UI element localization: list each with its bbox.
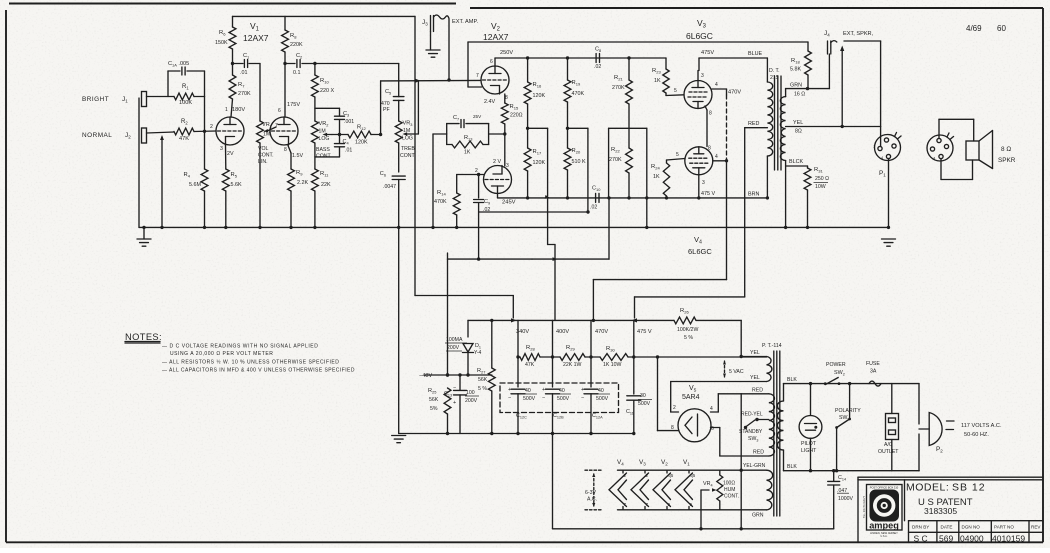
B+ feed wire from rail to 340V node — [414, 16, 416, 295]
svg-text:0.1: 0.1 — [293, 70, 301, 76]
BLK bottom line — [784, 470, 920, 472]
svg-text:ampeg: ampeg — [869, 521, 899, 531]
heater V3 — [644, 470, 646, 473]
RED tap wire to power supply — [744, 128, 746, 297]
svg-text:5 VAC: 5 VAC — [729, 369, 744, 375]
secondary BLCK tap to ground — [785, 161, 787, 228]
capacitor C9 .02 — [477, 173, 480, 176]
svg-text:.0047: .0047 — [383, 184, 396, 190]
svg-text:.01: .01 — [345, 148, 352, 154]
svg-text:R17: R17 — [533, 149, 542, 156]
svg-text:4: 4 — [715, 154, 718, 160]
svg-text:500V: 500V — [638, 401, 651, 407]
svg-text:3: 3 — [220, 146, 223, 152]
tube V1 12AX7 triode a — [216, 117, 244, 145]
svg-text:RED-YEL: RED-YEL — [741, 412, 763, 418]
svg-text:R1: R1 — [182, 84, 189, 91]
bass pot VR2 1M LOG — [312, 121, 319, 143]
svg-text:+: + — [453, 400, 456, 406]
resistor R27 56K 5% — [491, 320, 493, 368]
svg-text:9: 9 — [690, 502, 693, 507]
resistor R31 250 ohm 10W — [807, 166, 809, 168]
svg-text:−: − — [581, 395, 584, 401]
B+ rail top — [233, 15, 416, 17]
svg-text:R10: R10 — [320, 78, 329, 85]
svg-text:U.S.A.: U.S.A. — [881, 535, 888, 538]
svg-text:56K: 56K — [429, 397, 439, 403]
svg-text:3183305: 3183305 — [924, 506, 957, 516]
wire 475V to V5 pin8 — [657, 357, 659, 431]
heater V2 — [666, 470, 668, 473]
svg-text:8 Ω: 8 Ω — [1001, 146, 1011, 153]
svg-text:C10: C10 — [592, 186, 601, 193]
node vertical R1/R2/R4 junction — [204, 97, 206, 170]
resistor R16 120K — [527, 58, 529, 82]
svg-text:GRN: GRN — [790, 83, 802, 89]
resistor R15 220 ohm — [501, 103, 508, 124]
svg-text:2: 2 — [210, 124, 213, 130]
wire R2 to V1 grid pin 2 — [194, 130, 216, 133]
svg-text:569: 569 — [939, 533, 953, 543]
svg-text:R29: R29 — [566, 345, 575, 352]
resistor R12 120K — [332, 134, 348, 136]
svg-text:10W: 10W — [815, 184, 826, 190]
wire R7 to V1 plate pin1 180V — [231, 99, 233, 117]
svg-text:R9: R9 — [296, 170, 303, 177]
filter cap C12A 40/500V — [584, 388, 598, 390]
svg-text:510 K: 510 K — [572, 159, 586, 165]
5V winding — [767, 357, 772, 382]
svg-text:100: 100 — [466, 390, 475, 396]
svg-text:7: 7 — [624, 502, 627, 507]
output transformer secondary — [780, 97, 785, 161]
5V winding YEL bottom — [671, 381, 767, 383]
svg-text:2 V: 2 V — [493, 159, 501, 165]
secondary YEL 8 ohm tap — [786, 126, 881, 128]
svg-text:9: 9 — [668, 502, 671, 507]
tube V2 triode a — [481, 66, 509, 94]
P1 pin1 wire from amp — [880, 127, 882, 147]
svg-text:C8: C8 — [595, 47, 601, 54]
svg-text:1K: 1K — [654, 78, 661, 84]
svg-text:R16: R16 — [533, 82, 542, 89]
resistor R6 150K — [232, 16, 234, 27]
svg-text:RED: RED — [748, 121, 759, 127]
tube V1 triode b — [270, 117, 298, 145]
svg-text:TEL. 201 HU 6-8177: TEL. 201 HU 6-8177 — [863, 495, 866, 518]
svg-text:P. T.-114: P. T.-114 — [762, 343, 782, 349]
svg-text:5: 5 — [674, 88, 677, 94]
svg-text:100K/2W: 100K/2W — [677, 327, 698, 333]
svg-text:STANDBY: STANDBY — [739, 429, 763, 435]
svg-text:.02: .02 — [590, 205, 597, 211]
svg-text:POST OFFICE BOX 310: POST OFFICE BOX 310 — [870, 485, 899, 489]
output transformer RED center tap — [745, 127, 768, 129]
V5 plate pin4 to RED top — [711, 411, 719, 413]
svg-text:LIN.: LIN. — [258, 159, 268, 165]
svg-text:C6: C6 — [380, 171, 386, 178]
pilot light — [810, 384, 812, 416]
svg-text:R26: R26 — [680, 308, 689, 315]
wire R19/R20 junction riser — [568, 127, 588, 129]
main ground bus — [139, 226, 889, 228]
svg-text:TREB: TREB — [401, 146, 415, 152]
svg-text:Y-4: Y-4 — [474, 350, 482, 356]
svg-text:CONT.: CONT. — [400, 153, 416, 159]
resistor R10 220K — [313, 62, 316, 65]
svg-text:180V: 180V — [232, 107, 245, 113]
svg-text:YEL: YEL — [750, 375, 760, 381]
resistor R5 5.6K — [222, 169, 229, 191]
svg-text:LOG: LOG — [402, 136, 413, 142]
svg-text:FUSE: FUSE — [866, 361, 880, 367]
resistor R28 47K — [520, 354, 540, 361]
svg-text:2: 2 — [475, 168, 478, 174]
wire R12 node to grid line — [380, 81, 382, 135]
svg-text:3A: 3A — [870, 369, 877, 375]
svg-text:8: 8 — [671, 425, 674, 431]
svg-text:RED: RED — [752, 388, 763, 394]
svg-text:4: 4 — [715, 82, 718, 88]
svg-text:220Ω: 220Ω — [510, 113, 523, 119]
svg-text:470K: 470K — [572, 91, 585, 97]
AC outlet — [886, 414, 899, 440]
svg-text:VR2: VR2 — [319, 121, 329, 128]
V5 plate pin6 to RED bottom — [711, 427, 720, 429]
speaker 8 ohm — [966, 141, 979, 160]
hum balance pot VR4 100 ohm — [719, 470, 721, 475]
svg-text:RED: RED — [753, 450, 764, 456]
svg-text:R4: R4 — [184, 172, 191, 179]
svg-text:270K: 270K — [609, 157, 622, 163]
svg-text:DRN BY: DRN BY — [912, 525, 929, 530]
svg-text:CONT.: CONT. — [724, 494, 739, 500]
svg-text:−: − — [508, 395, 511, 401]
P1 pin4 to ground — [888, 159, 890, 228]
svg-text:R28: R28 — [526, 345, 535, 352]
plate line 245V across to output stage — [498, 197, 768, 199]
svg-text:1.5V: 1.5V — [292, 153, 303, 159]
heater V1 — [688, 470, 690, 473]
svg-text:100K: 100K — [179, 100, 192, 106]
VR3 wiper to grid line — [403, 132, 408, 135]
resistor R9 2.2K — [288, 169, 295, 191]
svg-text:MODEL:: MODEL: — [906, 482, 949, 494]
capacitor C7 with R13 1K parallel box — [433, 133, 447, 135]
VR2 wiper arrow — [327, 134, 332, 136]
svg-text:GRN: GRN — [752, 513, 764, 519]
svg-text:8: 8 — [709, 111, 712, 117]
svg-text:VR1: VR1 — [262, 122, 272, 129]
svg-text:R19: R19 — [572, 80, 581, 87]
svg-text:−: − — [453, 385, 456, 391]
svg-text:40: 40 — [525, 388, 531, 394]
V3 plate to 475V BLUE line — [697, 71, 699, 81]
svg-text:250V: 250V — [500, 50, 513, 56]
svg-text:— ALL RESISTORS ½ W. 10 %: — ALL RESISTORS ½ W. 10 % UNLESS OTHERWI… — [162, 359, 339, 366]
svg-text:175V: 175V — [287, 102, 300, 108]
tube V4 6L6GC — [685, 147, 713, 175]
5VAC indicator — [724, 361, 726, 377]
svg-text:BLUE: BLUE — [748, 51, 762, 57]
svg-text:R20: R20 — [572, 148, 581, 155]
capacitor C4 .01 — [339, 120, 341, 144]
svg-text:220 X: 220 X — [320, 88, 334, 94]
V2b plate to 245V line — [497, 194, 499, 198]
svg-text:HUM: HUM — [724, 487, 735, 493]
svg-text:220K: 220K — [290, 42, 303, 48]
svg-text:475V: 475V — [701, 50, 714, 56]
svg-text:470V: 470V — [728, 90, 741, 96]
title block frame — [858, 476, 1043, 478]
plug P2 — [918, 384, 920, 424]
svg-text:2: 2 — [646, 473, 649, 478]
svg-text:.02: .02 — [594, 64, 601, 70]
svg-text:6L6GC: 6L6GC — [688, 247, 712, 256]
svg-text:1000V: 1000V — [838, 496, 854, 502]
svg-text:C2: C2 — [296, 53, 302, 60]
resistor R8 220K — [284, 16, 286, 30]
svg-text:LIGHT: LIGHT — [801, 448, 817, 454]
secondary GRN 16 ohm tap — [785, 89, 787, 97]
svg-text:POWER: POWER — [826, 362, 846, 368]
title table — [936, 521, 938, 543]
svg-text:6: 6 — [490, 59, 493, 65]
svg-text:100Ω: 100Ω — [723, 481, 735, 487]
svg-text:2.4V: 2.4V — [484, 99, 495, 105]
svg-text:USING A 20,000 Ω PER VOL: USING A 20,000 Ω PER VOLT METER — [170, 351, 273, 357]
capacitor C1 .01 — [233, 63, 244, 65]
V3 cathode to V4 cathode wire — [705, 106, 707, 110]
svg-text:470K: 470K — [434, 199, 447, 205]
svg-text:R30: R30 — [606, 346, 615, 353]
resistor R19 470K — [567, 58, 569, 80]
svg-text:100MA: 100MA — [446, 337, 463, 343]
grid return arrow at J2 line — [161, 137, 163, 227]
capacitor C14 .047 1000V — [833, 471, 835, 481]
capacitor C2 0.1 — [285, 63, 295, 65]
wire R6 to C1 node to R7 — [232, 49, 234, 75]
svg-text:R12: R12 — [357, 125, 366, 132]
VR4 wiper ground wire — [700, 490, 702, 529]
svg-text:R5: R5 — [231, 172, 238, 179]
svg-text:BRIGHT: BRIGHT — [82, 96, 109, 103]
capacitor C10 .02 — [595, 193, 597, 202]
svg-text:BLK: BLK — [787, 464, 797, 470]
capacitor C13 100/200V — [459, 375, 461, 390]
primary winding — [777, 401, 783, 450]
svg-text:R21: R21 — [614, 75, 623, 82]
svg-text:4/69: 4/69 — [966, 24, 982, 33]
wire C9 junction to riser — [479, 211, 588, 213]
svg-text:7: 7 — [476, 73, 479, 79]
capacitor C8 .02 — [595, 54, 597, 63]
svg-text:3: 3 — [702, 180, 705, 186]
resistor R30 1K 10W — [600, 354, 628, 361]
svg-text:6: 6 — [278, 108, 281, 114]
resistor R20 510K — [567, 102, 569, 148]
B+ 340V line with R26 — [468, 319, 674, 321]
svg-text:BLCK: BLCK — [789, 159, 803, 165]
svg-text:OUTLET: OUTLET — [878, 449, 899, 455]
svg-text:4|5: 4|5 — [690, 473, 696, 478]
svg-text:5.8K: 5.8K — [790, 67, 801, 73]
svg-text:CONT.: CONT. — [258, 153, 274, 159]
PSU ground line — [399, 433, 634, 435]
svg-text:4|5: 4|5 — [668, 473, 674, 478]
PSU ground symbol — [392, 435, 406, 437]
svg-text:— D C VOLTAGE READINGS WIT: — D C VOLTAGE READINGS WITH NO SIGNAL AP… — [162, 344, 318, 350]
wire J1 J2 sleeve to ground bus — [138, 98, 140, 227]
svg-text:470V: 470V — [595, 329, 608, 335]
svg-text:R31: R31 — [814, 167, 823, 174]
svg-text:5 %: 5 % — [478, 386, 487, 392]
volume pot VR1 1M column — [259, 64, 261, 122]
svg-text:R23: R23 — [652, 68, 661, 75]
svg-text:.01: .01 — [240, 70, 248, 76]
svg-text:1: 1 — [225, 107, 228, 113]
svg-text:PF: PF — [383, 107, 390, 113]
svg-text:60: 60 — [997, 24, 1006, 33]
svg-text:5: 5 — [676, 152, 679, 158]
svg-text:R25: R25 — [428, 388, 437, 395]
svg-text:SB 12: SB 12 — [952, 482, 986, 494]
V2a plate pin6 to 250V line — [494, 58, 496, 66]
wire V1 cathode pin3 to R5 to ground — [225, 145, 227, 169]
svg-text:56K: 56K — [478, 377, 488, 383]
feed jog down to B+ line — [547, 198, 549, 245]
svg-text:YEL: YEL — [750, 350, 760, 356]
svg-text:2.2K: 2.2K — [297, 180, 308, 186]
wire R8 to C2 node to V1 plate pin6 175V — [284, 52, 286, 117]
svg-text:1K: 1K — [653, 174, 660, 180]
svg-text:40: 40 — [598, 388, 604, 394]
resistor R21 270K — [628, 58, 630, 80]
ampeg logo — [867, 485, 903, 531]
jog segment on feed line — [479, 258, 532, 260]
resistor R14 470K — [456, 175, 458, 194]
svg-text:30: 30 — [640, 393, 646, 399]
svg-text:1K 10W: 1K 10W — [603, 362, 622, 368]
NFB rail from V2 cathode to R18 — [468, 41, 808, 43]
svg-text:R15: R15 — [510, 104, 519, 111]
heater/PSU ground return line — [552, 434, 554, 529]
heater V4 — [622, 470, 624, 473]
plug P1 — [875, 135, 901, 161]
wire J2 tip to R2 — [147, 132, 175, 133]
V2b grid pin2 to R14 — [457, 174, 484, 176]
svg-text:R14: R14 — [437, 190, 446, 197]
svg-text:— ALL CAPACITORS IN MFD &: — ALL CAPACITORS IN MFD & 400 V UNLESS O… — [162, 368, 355, 374]
svg-text:120K: 120K — [533, 93, 546, 99]
feedback resistor R18 5.8K — [807, 42, 809, 51]
bottom rail of primary loop — [918, 470, 920, 472]
wire R15 to cathode node — [504, 124, 506, 166]
svg-text:POLARITY: POLARITY — [835, 408, 861, 414]
resistor R17 120K — [527, 104, 529, 148]
svg-text:LOG: LOG — [319, 136, 330, 142]
B+ riser 470V — [590, 320, 592, 387]
svg-text:22K 1W: 22K 1W — [563, 362, 582, 368]
svg-text:VOL: VOL — [258, 146, 268, 152]
svg-text:R24: R24 — [651, 164, 660, 171]
svg-text:DATE: DATE — [941, 525, 953, 530]
svg-text:475 V: 475 V — [701, 191, 715, 197]
svg-text:16 Ω: 16 Ω — [794, 92, 805, 98]
svg-text:8Ω: 8Ω — [795, 129, 802, 135]
svg-text:R18: R18 — [791, 58, 800, 65]
svg-text:250 Ω: 250 Ω — [815, 176, 829, 182]
V4 plate to 475V line — [698, 175, 700, 198]
svg-text:+: + — [542, 387, 545, 393]
6.3V winding — [767, 470, 773, 510]
svg-text:R7: R7 — [238, 82, 245, 89]
-48V bias line — [425, 374, 492, 376]
svg-text:BRN: BRN — [748, 192, 759, 198]
svg-text:R6: R6 — [219, 30, 226, 37]
heater supply top line — [618, 469, 767, 471]
treble pot VR3 1M column from C2 line — [398, 64, 400, 97]
svg-text:47K: 47K — [525, 362, 535, 368]
svg-text:BLK: BLK — [787, 377, 797, 383]
svg-text:5 %: 5 % — [684, 335, 693, 341]
tube V3 6L6GC — [684, 81, 712, 109]
B+ riser 340V — [517, 320, 519, 387]
svg-text:500V: 500V — [523, 396, 536, 402]
svg-text:5.6M: 5.6M — [189, 182, 201, 188]
svg-text:R11: R11 — [320, 171, 329, 178]
svg-text:1M: 1M — [319, 129, 326, 135]
svg-text:EXT, SPKR,: EXT, SPKR, — [843, 31, 874, 37]
svg-text:YEL-GRN: YEL-GRN — [743, 463, 766, 469]
resistor R29 22K 1W — [560, 354, 585, 361]
svg-text:DGN NO: DGN NO — [962, 525, 981, 530]
svg-text:500V: 500V — [557, 396, 570, 402]
svg-text:475 V: 475 V — [637, 329, 652, 335]
6.3VAC dashed indicator — [585, 469, 601, 471]
svg-text:R8: R8 — [290, 33, 297, 40]
svg-text:EXT. AMP.: EXT. AMP. — [452, 19, 478, 25]
svg-text:200V: 200V — [465, 398, 478, 404]
svg-text:25V: 25V — [473, 114, 482, 119]
svg-text:S C: S C — [914, 533, 928, 543]
wire R10 to VR2 top node — [314, 97, 316, 121]
svg-text:−: − — [542, 395, 545, 401]
svg-text:C9: C9 — [484, 199, 490, 206]
svg-text:C1A .005: C1A .005 — [168, 61, 189, 68]
J3 ground — [430, 32, 432, 51]
svg-text:5.6K: 5.6K — [231, 182, 242, 188]
svg-text:6-3V: 6-3V — [585, 490, 596, 496]
wire R4 to ground bus — [204, 191, 206, 227]
V2 grid line to pin 7 — [381, 79, 481, 82]
svg-text:NOTES:: NOTES: — [125, 332, 162, 342]
filter cap C12C 40/500V — [511, 388, 525, 390]
svg-text:270K: 270K — [612, 85, 625, 91]
ext spkr arrow wire — [841, 49, 843, 127]
svg-text:150K: 150K — [215, 40, 228, 46]
svg-text:3: 3 — [506, 163, 509, 169]
svg-text:22K: 22K — [321, 182, 331, 188]
svg-text:PART NO: PART NO — [994, 525, 1014, 530]
svg-text:117 VOLTS A.C.: 117 VOLTS A.C. — [961, 423, 1002, 429]
capacitor C1A .005 parallel loop — [167, 71, 169, 97]
svg-text:R27: R27 — [477, 368, 485, 375]
svg-text:R13: R13 — [464, 135, 472, 142]
svg-text:C7: C7 — [453, 115, 459, 122]
svg-text:YEL: YEL — [793, 120, 803, 126]
heater supply bottom line — [618, 509, 767, 511]
